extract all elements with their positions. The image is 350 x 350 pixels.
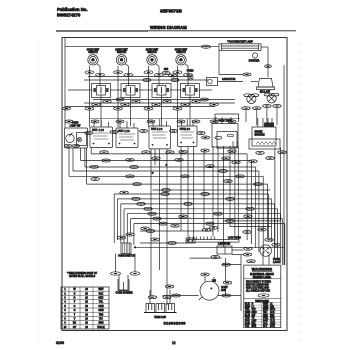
svg-text:OVEN BURNER: OVEN BURNER bbox=[115, 293, 132, 295]
wire labels above boxes bbox=[65, 119, 240, 124]
svg-text:WHT: WHT bbox=[263, 304, 269, 306]
top burner igniter IG1 bbox=[242, 94, 261, 125]
svg-text:FAN: FAN bbox=[270, 317, 275, 320]
wire strip feeders bbox=[140, 230, 213, 233]
svg-text:YEL: YEL bbox=[245, 309, 250, 311]
title WIRING DIAGRAM bbox=[150, 25, 187, 30]
svg-text:B-W: B-W bbox=[245, 323, 250, 325]
svg-text:LCK: LCK bbox=[270, 312, 275, 314]
svg-text:Publication No.: Publication No. bbox=[57, 7, 87, 12]
surface unit switch SW3 bbox=[146, 50, 159, 66]
svg-text:IGN: IGN bbox=[270, 315, 274, 317]
svg-text:GRN: GRN bbox=[245, 312, 250, 314]
svg-text:IGN: IGN bbox=[164, 69, 168, 71]
svg-text:TB: TB bbox=[252, 318, 255, 320]
svg-text:FAN: FAN bbox=[221, 289, 226, 292]
svg-text:GEF367GB: GEF367GB bbox=[160, 9, 182, 14]
wire center bundle bbox=[151, 149, 167, 305]
svg-text:GRY: GRY bbox=[263, 315, 268, 317]
svg-text:WIRING DIAGRAM: WIRING DIAGRAM bbox=[150, 25, 187, 30]
wire labels below valves bbox=[92, 100, 219, 106]
terminal block TB2 bbox=[144, 290, 177, 319]
svg-text:CONV: CONV bbox=[221, 287, 228, 289]
svg-text:RED: RED bbox=[99, 298, 104, 300]
svg-text:* WIRE HARNESS PART OF: * WIRE HARNESS PART OF bbox=[67, 272, 98, 275]
surface unit switch SW2 bbox=[115, 50, 128, 66]
svg-text:W-BLK: W-BLK bbox=[97, 327, 105, 329]
svg-text:RED: RED bbox=[245, 306, 250, 308]
wire from switch SW2 bbox=[114, 64, 134, 110]
svg-text:TAN: TAN bbox=[99, 313, 104, 316]
svg-text:O-B: O-B bbox=[263, 323, 268, 325]
wire valve row bus bbox=[65, 77, 235, 107]
svg-text:TERM LMP: TERM LMP bbox=[154, 317, 166, 319]
wire fan verticals bbox=[114, 194, 134, 245]
svg-text:LMP: LMP bbox=[252, 321, 257, 323]
svg-text:W-B: W-B bbox=[245, 321, 250, 323]
svg-text:OVEN: OVEN bbox=[187, 71, 194, 73]
svg-text:SURF UNIT: SURF UNIT bbox=[115, 50, 128, 52]
oven ignitor R1 bbox=[117, 233, 283, 258]
warning box bbox=[244, 265, 281, 328]
warning legend table bbox=[244, 299, 281, 328]
svg-text:O: O bbox=[74, 306, 76, 308]
svg-text:WARNING: WARNING bbox=[252, 267, 273, 272]
svg-text:5995274270: 5995274270 bbox=[57, 13, 81, 18]
svg-text:SPK: SPK bbox=[252, 326, 257, 328]
svg-text:PNK: PNK bbox=[263, 318, 268, 320]
svg-text:GND: GND bbox=[252, 312, 257, 314]
svg-text:SWITCH: SWITCH bbox=[176, 52, 186, 54]
svg-text:DSI: DSI bbox=[270, 306, 274, 308]
surface unit switch SW4 bbox=[175, 50, 188, 66]
wire thermostat feed bbox=[215, 114, 239, 122]
wire color legend table bbox=[61, 287, 109, 329]
footer date bbox=[56, 341, 64, 345]
svg-text:BRL: BRL bbox=[252, 323, 257, 325]
footnote text bbox=[67, 272, 98, 278]
svg-text:CAPACITOR: CAPACITOR bbox=[222, 78, 236, 81]
capacitor C1 bbox=[207, 50, 252, 85]
svg-text:CLN: CLN bbox=[270, 321, 275, 323]
svg-text:GRN: GRN bbox=[98, 310, 103, 312]
svg-text:01/96: 01/96 bbox=[56, 341, 64, 345]
svg-text:BLU: BLU bbox=[245, 315, 250, 317]
svg-text:1 2 3: 1 2 3 bbox=[157, 129, 163, 131]
svg-text:HAZARD LABEL: HAZARD LABEL bbox=[253, 276, 272, 279]
svg-text:STARTER: STARTER bbox=[249, 60, 260, 63]
convection motor M2 bbox=[199, 273, 228, 300]
svg-text:LATCH SW: LATCH SW bbox=[218, 243, 231, 246]
svg-text:VIO: VIO bbox=[263, 312, 267, 314]
svg-text:GY: GY bbox=[73, 327, 77, 329]
svg-text:BRN: BRN bbox=[263, 309, 268, 311]
svg-text:TAN: TAN bbox=[245, 317, 250, 320]
oven thermostat box bbox=[212, 117, 238, 148]
oven lamp indicator bbox=[187, 71, 194, 81]
svg-text:G: G bbox=[74, 310, 76, 312]
surface valve V1 bbox=[92, 84, 111, 98]
wire labels between switches bbox=[162, 69, 177, 77]
spark module U1 bbox=[249, 118, 280, 149]
svg-text:VIO: VIO bbox=[99, 319, 103, 321]
svg-text:1 2 3: 1 2 3 bbox=[124, 131, 130, 133]
svg-text:BRN: BRN bbox=[99, 323, 104, 325]
wire from switch SW1 bbox=[85, 64, 105, 110]
svg-text:G-Y: G-Y bbox=[263, 326, 268, 328]
svg-text:LATCH: LATCH bbox=[273, 261, 281, 264]
wire labels between boxes bbox=[85, 130, 210, 140]
svg-text:YEL: YEL bbox=[99, 302, 104, 304]
oven burner bbox=[111, 254, 141, 295]
publication number label bbox=[57, 7, 87, 18]
wire mid verticals bbox=[181, 147, 204, 240]
decorative bbox=[37, 44, 301, 341]
svg-text:WHT: WHT bbox=[98, 289, 104, 291]
svg-text:1 2 3: 1 2 3 bbox=[99, 130, 105, 132]
svg-text:DISCONNECT POWER: DISCONNECT POWER bbox=[246, 282, 271, 284]
oven lamp box assembly bbox=[64, 123, 87, 148]
surface unit switch SW1 bbox=[87, 50, 100, 66]
wire labels on mesh bbox=[90, 149, 286, 230]
top burner igniter IG2 bbox=[263, 93, 282, 125]
footer page number bbox=[172, 341, 176, 345]
header rule bbox=[56, 30, 296, 33]
wire from switch SW3 bbox=[144, 64, 164, 110]
burner switch B bbox=[116, 121, 138, 148]
wire mesh upper runs bbox=[69, 148, 268, 256]
door latch motor M1 bbox=[260, 238, 281, 265]
surface valve V2 bbox=[121, 84, 140, 98]
svg-text:SPARK: SPARK bbox=[255, 131, 263, 134]
terminal strip TB1 bbox=[187, 226, 241, 242]
svg-text:ALL PANELS BEFORE: ALL PANELS BEFORE bbox=[246, 290, 270, 293]
wire top feed bbox=[63, 38, 220, 128]
svg-text:OVEN IGNITOR: OVEN IGNITOR bbox=[118, 256, 135, 258]
svg-text:BR: BR bbox=[73, 323, 77, 325]
burner switch C bbox=[149, 119, 171, 149]
burner switch D bbox=[178, 119, 198, 147]
ballast transformer T1 bbox=[251, 79, 275, 94]
svg-text:MODULE: MODULE bbox=[255, 135, 266, 137]
model number label bbox=[160, 9, 182, 14]
svg-text:REPLACE WIRE AND: REPLACE WIRE AND bbox=[246, 287, 269, 290]
svg-text:LAMP SW: LAMP SW bbox=[70, 124, 81, 127]
svg-text:SURF UNIT: SURF UNIT bbox=[175, 50, 188, 52]
svg-text:OVEN: OVEN bbox=[72, 123, 79, 125]
svg-text:DOOR: DOOR bbox=[273, 259, 280, 261]
svg-text:1 2 3: 1 2 3 bbox=[185, 129, 191, 131]
svg-text:SWITCH: SWITCH bbox=[88, 52, 98, 54]
svg-text:VLV: VLV bbox=[252, 309, 257, 311]
svg-text:SURF UNIT: SURF UNIT bbox=[146, 50, 159, 52]
burner switch A bbox=[90, 120, 113, 148]
svg-text:* FLUORESCENT LAMP: * FLUORESCENT LAMP bbox=[227, 41, 253, 44]
svg-text:WIRE CODE: WIRE CODE bbox=[255, 301, 269, 303]
surface valve V4 bbox=[181, 84, 200, 98]
svg-text:SURF UNIT: SURF UNIT bbox=[87, 50, 100, 52]
wire from switch SW4 bbox=[173, 64, 193, 110]
surface valve V3 bbox=[152, 84, 171, 98]
svg-text:STR: STR bbox=[270, 326, 275, 328]
diagram border bbox=[62, 38, 287, 331]
svg-text:BLK: BLK bbox=[245, 304, 250, 306]
wire lamp to ballast bbox=[261, 47, 272, 77]
part number 316002069 bbox=[164, 320, 187, 325]
svg-text:ORN: ORN bbox=[98, 306, 103, 308]
svg-text:LOW OVEN: LOW OVEN bbox=[228, 238, 241, 240]
svg-text:MTR: MTR bbox=[270, 309, 275, 311]
svg-text:12: 12 bbox=[172, 341, 176, 345]
wire right bundle bbox=[213, 65, 284, 265]
svg-text:316002069: 316002069 bbox=[164, 320, 187, 325]
svg-text:ELECTRICAL SHOCK: ELECTRICAL SHOCK bbox=[250, 273, 274, 276]
wire mesh fan runs bbox=[114, 189, 285, 266]
starter S1 bbox=[249, 53, 260, 63]
fluorescent lamp FL1 bbox=[219, 41, 261, 51]
svg-text:LISTED IN ALL MODELS: LISTED IN ALL MODELS bbox=[69, 275, 96, 278]
svg-text:SWITCH: SWITCH bbox=[117, 52, 127, 54]
svg-text:BLK: BLK bbox=[99, 293, 104, 295]
svg-text:ORN: ORN bbox=[263, 306, 268, 308]
svg-text:Y-R: Y-R bbox=[245, 326, 249, 328]
wire right horizontals bbox=[163, 221, 281, 311]
wire valve drops bbox=[90, 95, 191, 127]
svg-text:SWITCH: SWITCH bbox=[147, 52, 157, 54]
svg-text:OVN: OVN bbox=[270, 323, 275, 325]
svg-text:R-W: R-W bbox=[263, 321, 268, 323]
door latch switch bbox=[186, 238, 255, 263]
svg-text:BEFORE SERVICING: BEFORE SERVICING bbox=[246, 285, 269, 287]
